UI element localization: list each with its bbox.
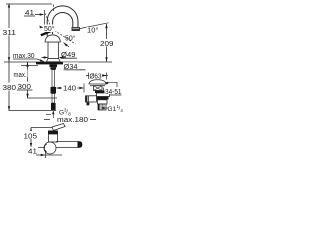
34-51 underline [104,94,122,96]
swing dashed right [55,31,76,45]
shank tube [52,70,55,87]
hose fitting [51,87,57,94]
top extension line [6,3,52,5]
raised lever dashed [45,14,52,32]
center dashes [53,5,55,13]
spout inner arc [53,12,73,34]
spout outer arc [47,6,78,36]
105 dim line [30,128,32,148]
140 dim [57,87,63,89]
svg-text:max.180: max.180 [57,117,88,124]
41 dim top [24,15,35,17]
svg-text:Ø49: Ø49 [61,52,76,59]
svg-text:max.30: max.30 [13,53,35,60]
svg-text:41: 41 [28,149,37,156]
380 dim line [9,62,56,111]
bottom line for 105 [28,147,45,149]
svg-text:Ø63: Ø63 [90,73,102,80]
max300 dim line [28,62,58,98]
deck bottom line left [21,65,38,67]
spout tube [56,142,82,148]
spigot dark lines [86,96,87,102]
svg-text:G1: G1 [108,106,117,113]
svg-text:300: 300 [18,84,32,91]
max180 dashes [44,119,50,121]
G38 leader stem [52,111,54,118]
svg-text:50°: 50° [44,25,55,33]
shank nut [50,64,58,67]
deck band [36,62,63,64]
plug dome [89,80,106,84]
waste body band [97,97,109,100]
41 bottom dim [36,154,62,156]
plug stem [94,86,103,91]
O49 arrows lines [42,57,48,59]
tail left edge [98,104,99,110]
spigot [86,96,97,102]
waste upper body [97,93,110,97]
svg-text:209: 209 [100,41,114,48]
text labels [2,10,124,155]
svg-text:311: 311 [3,30,17,37]
svg-text:34-51: 34-51 [105,89,122,96]
max30 underline + leader [13,58,37,60]
deck top line [4,61,112,63]
body side [49,134,58,142]
209 dim line [106,24,108,62]
lever [41,31,52,36]
lever plan [52,124,65,131]
svg-text:Ø34: Ø34 [64,64,78,71]
311 dim line [8,4,10,62]
flange band waste [95,91,112,94]
svg-text:380: 380 [3,85,17,92]
G114 leader [105,107,109,109]
svg-text:140: 140 [63,86,76,93]
O63 dim [86,75,108,77]
G38 end block [51,103,56,110]
tube end cap [78,142,83,148]
arrowheads [8,3,109,156]
svg-text:10°: 10° [87,26,99,34]
base trapezoid [47,59,61,62]
dark fills [36,62,112,148]
lever cap bottom view [48,131,58,135]
300 underline [17,89,33,91]
tail pipe [98,104,106,110]
base circle [44,142,56,154]
34-51 leader [106,82,118,87]
bottom view ext top [31,127,52,129]
svg-text:105: 105 [24,134,38,141]
svg-text:50°: 50° [65,35,76,43]
waste lower body [98,100,108,104]
O34 underline [64,69,86,71]
svg-text:41: 41 [25,10,34,17]
10 deg line [80,23,109,29]
spout aerator [72,28,80,31]
dome cap [45,35,60,42]
svg-text:max.: max. [14,72,27,79]
spigot clamp screw [87,102,90,105]
body rect [48,42,59,59]
